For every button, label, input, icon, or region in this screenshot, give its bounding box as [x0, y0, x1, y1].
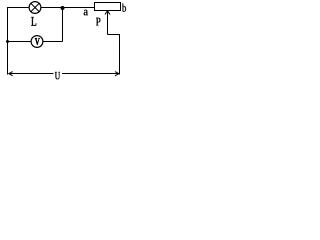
label a [84, 10, 88, 16]
wire voltmeter branch left [8, 41, 32, 43]
voltage U annotation line right segment [62, 73, 119, 75]
wire right vertical [119, 34, 121, 75]
slider arrowhead on rheostat [105, 11, 110, 15]
wire riser from node to voltmeter branch [62, 8, 64, 42]
label U [55, 72, 60, 79]
voltage U annotation line left segment [9, 73, 54, 75]
node junction dot at riser and top wire [61, 6, 65, 10]
label b [122, 4, 126, 12]
wire left vertical [7, 7, 9, 75]
voltmeter V glyph [35, 38, 40, 45]
label P [96, 18, 100, 26]
label L [31, 17, 36, 26]
wire lamp to rheostat terminal a [41, 7, 95, 9]
lamp L [29, 2, 41, 14]
arrowhead right of U line [115, 72, 119, 76]
wire voltmeter right to riser [43, 41, 63, 43]
rheostat R body [95, 3, 121, 11]
wire slider P down [107, 11, 109, 35]
node junction dot at left wire and voltmeter branch [6, 40, 9, 43]
wire top-left from corner to lamp [7, 7, 30, 9]
wire slider horizontal [108, 34, 120, 36]
arrowhead left of U line [9, 72, 13, 76]
voltmeter V [31, 36, 43, 48]
